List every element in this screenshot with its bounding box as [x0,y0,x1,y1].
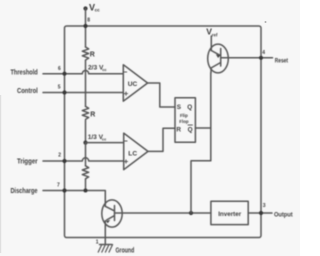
wire node to R3 [85,143,87,166]
svg-text:R: R [176,127,181,134]
wire discharge to Q1 collector [43,191,105,207]
svg-text:cc: cc [95,8,101,13]
wire inverter to output pin [248,212,272,214]
svg-text:R: R [90,111,95,118]
svg-text:Flop: Flop [179,119,189,124]
svg-text:Discharge: Discharge [11,188,38,195]
svg-text:ref: ref [212,32,218,37]
junction reset / border [259,56,263,60]
resistor R1 [82,47,88,60]
junction base row [189,211,193,215]
transistor Q1 discharge [102,200,122,245]
svg-text:Q: Q [187,104,192,111]
Vref label [206,27,218,38]
svg-text:2: 2 [58,153,61,159]
svg-text:Q: Q [188,127,193,134]
junction discharge / border [62,188,66,192]
junction trigger / border [62,159,66,163]
svg-text:Ground: Ground [116,248,135,255]
node 1/3 Vcc label [88,134,107,141]
svg-text:1: 1 [96,240,99,246]
wire Vcc down to R1 [85,9,87,48]
inverter U2 [211,201,248,224]
node 2/3 Vcc label [88,65,107,72]
svg-text:LC: LC [128,150,137,157]
Vcc terminal node [83,3,100,13]
flip-flop U1 [175,98,195,143]
svg-text:Inverter: Inverter [218,211,241,218]
svg-text:S: S [177,104,182,111]
wire R1 to R2 (divider) [85,61,87,107]
svg-text:8: 8 [87,17,90,23]
wire R3 to discharge row [85,179,87,190]
wire 1/3 node to LC [86,142,124,144]
junction Vcc / top border [83,24,87,28]
junction R3 / discharge [84,189,88,193]
wire trigger with hop over divider [43,158,124,161]
wire control [43,92,123,94]
svg-text:Reset: Reset [275,57,289,64]
transistor Q2 reset [208,36,229,73]
wire UC output to flip-flop S [148,83,175,107]
svg-text:Trigger: Trigger [17,158,38,165]
svg-text:R: R [90,52,95,59]
svg-text:Flip: Flip [180,113,188,118]
wire flip-flop Qbar output [195,127,210,129]
wire Q1 base row to inverter [115,212,211,214]
svg-text:cc: cc [102,67,107,72]
svg-text:Threshold: Threshold [11,69,38,76]
wire Q2 collector down joining Qbar to base row [191,73,211,213]
wire Q2 base to reset pin [221,57,273,59]
IC package boundary box [65,26,262,238]
svg-text:cc: cc [102,137,107,142]
resistor R2 [82,106,88,119]
wire LC output to flip-flop R [148,128,175,151]
junction output / border [259,211,263,215]
svg-text:6: 6 [58,66,61,72]
wire threshold with hop over divider [43,71,123,74]
wire R2 to node 1/3 [85,120,87,142]
svg-text:5: 5 [58,85,61,91]
svg-text:7: 7 [57,182,60,188]
junction node 1/3 Vcc [83,141,87,145]
op-amp UC upper comparator [123,65,147,102]
junction control / border [62,90,66,94]
svg-text:UC: UC [128,81,138,88]
resistor R3 [82,166,88,179]
junction threshold / border [62,72,66,76]
op-amp LC lower comparator [124,133,148,170]
ground symbol [98,245,112,253]
svg-text:Output: Output [274,211,293,218]
svg-text:Control: Control [17,88,38,95]
svg-text:4: 4 [262,50,265,56]
svg-text:3: 3 [263,203,266,209]
